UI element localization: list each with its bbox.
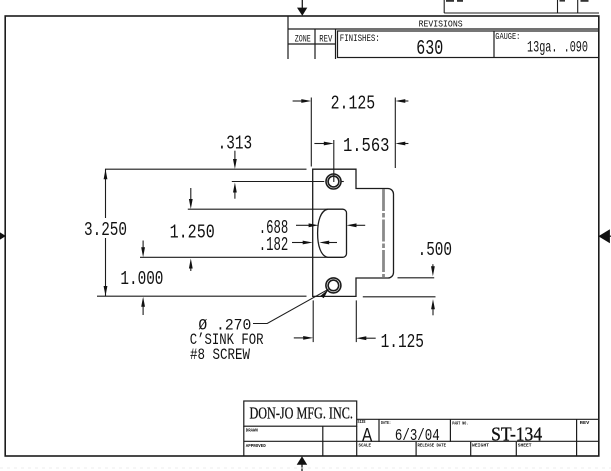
svg-text:1.125: 1.125	[381, 331, 424, 353]
svg-text:FINISHES:: FINISHES:	[340, 34, 380, 45]
svg-text:APPROVED: APPROVED	[246, 443, 266, 449]
svg-text:DRAWN: DRAWN	[246, 428, 258, 434]
svg-text:PART NO.: PART NO.	[452, 420, 468, 426]
svg-text:A: A	[362, 425, 373, 446]
svg-text:REV: REV	[580, 420, 590, 426]
svg-text:GAUGE:: GAUGE:	[495, 31, 520, 42]
svg-text:SIZE: SIZE	[358, 419, 366, 425]
svg-text:DON-JO MFG. INC.: DON-JO MFG. INC.	[249, 404, 353, 423]
svg-text:1.000: 1.000	[120, 268, 163, 290]
svg-text:1.250: 1.250	[170, 222, 215, 244]
svg-text:2.125: 2.125	[331, 93, 376, 115]
svg-text:.313: .313	[218, 132, 253, 154]
svg-text:.500: .500	[418, 239, 452, 261]
svg-text:REVISIONS: REVISIONS	[419, 19, 463, 30]
svg-text:13ga. .090: 13ga. .090	[527, 38, 588, 56]
svg-text:630: 630	[416, 38, 443, 61]
svg-text:1.563: 1.563	[343, 135, 390, 157]
svg-text:ST-134: ST-134	[491, 424, 542, 446]
svg-text:#8 SCREW: #8 SCREW	[190, 346, 250, 364]
svg-text:ZONE: ZONE	[295, 35, 311, 46]
svg-text:3.250: 3.250	[84, 219, 127, 241]
svg-text:WEIGHT: WEIGHT	[472, 442, 489, 448]
svg-text:6/3/04: 6/3/04	[395, 427, 440, 446]
svg-text:REV: REV	[319, 35, 333, 46]
svg-text:DATE:: DATE:	[381, 420, 391, 426]
svg-text:.182: .182	[259, 234, 289, 256]
